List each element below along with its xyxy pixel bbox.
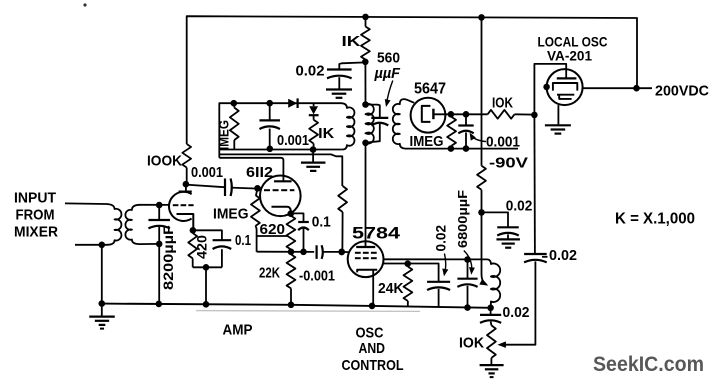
svg-text:0.02: 0.02 [506, 199, 533, 215]
svg-text:6II2: 6II2 [246, 164, 273, 181]
svg-text:8200µµF: 8200µµF [160, 224, 176, 290]
svg-text:IOK: IOK [492, 96, 513, 112]
svg-text:200VDC: 200VDC [655, 83, 709, 100]
svg-text:0.02: 0.02 [503, 305, 530, 321]
svg-text:SeekIC.com: SeekIC.com [593, 353, 704, 376]
svg-text:AMP: AMP [223, 322, 253, 339]
svg-text:0.001: 0.001 [486, 135, 520, 151]
svg-text:5784: 5784 [352, 225, 401, 243]
svg-text:0.02: 0.02 [296, 64, 325, 80]
svg-text:0.001: 0.001 [191, 165, 223, 181]
svg-text:-0.001: -0.001 [299, 269, 335, 285]
svg-text:5647: 5647 [414, 81, 446, 98]
svg-text:IMEG: IMEG [216, 120, 232, 150]
svg-text:IK: IK [318, 125, 334, 142]
svg-text:6800µµF: 6800µµF [455, 190, 470, 248]
svg-text:MIXER: MIXER [14, 224, 58, 241]
svg-text:620: 620 [260, 221, 286, 238]
svg-text:420: 420 [194, 235, 210, 259]
svg-text:0.1: 0.1 [312, 215, 331, 231]
svg-text:IK: IK [342, 33, 361, 50]
svg-text:22K: 22K [259, 266, 280, 282]
svg-text:0.02: 0.02 [549, 248, 577, 264]
svg-text:IMEG: IMEG [410, 133, 444, 150]
svg-text:OSC: OSC [356, 325, 384, 342]
svg-text:0.001: 0.001 [277, 133, 309, 149]
svg-text:FROM: FROM [16, 207, 55, 224]
svg-text:CONTROL: CONTROL [342, 357, 404, 374]
svg-text:VA-201: VA-201 [547, 48, 592, 64]
svg-text:µµF: µµF [374, 65, 401, 82]
svg-text:K = X.1,000: K = X.1,000 [615, 211, 695, 228]
svg-text:AND: AND [359, 340, 386, 357]
svg-text:IOK: IOK [459, 335, 484, 352]
svg-text:0.02: 0.02 [433, 225, 449, 252]
svg-text:24K: 24K [378, 280, 404, 297]
svg-text:560: 560 [377, 50, 400, 67]
svg-text:-90V: -90V [489, 155, 528, 172]
svg-text:INPUT: INPUT [14, 190, 56, 207]
svg-text:IMEG: IMEG [213, 206, 249, 223]
svg-text:IOOK: IOOK [147, 153, 182, 170]
svg-text:0.1: 0.1 [235, 233, 251, 249]
